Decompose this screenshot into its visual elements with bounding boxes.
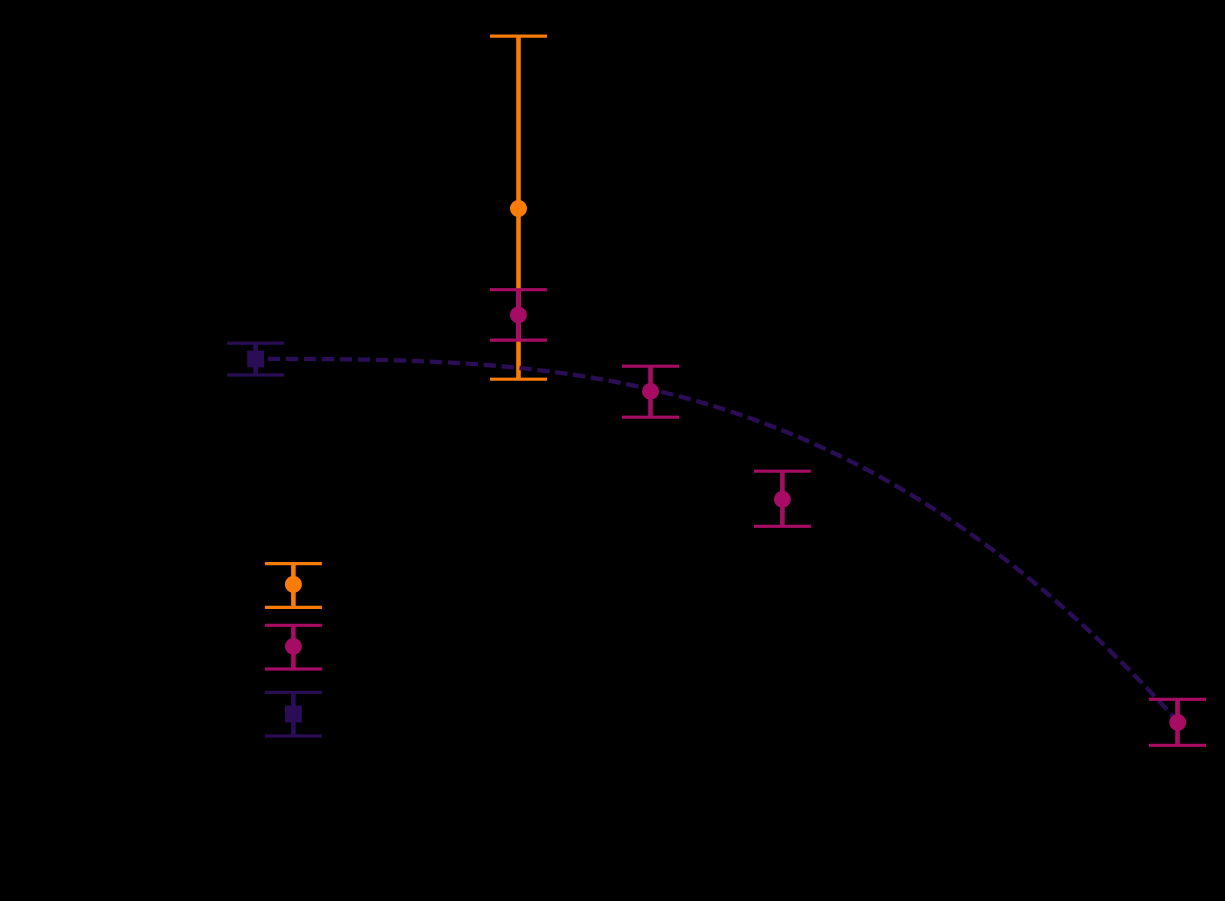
orange cap top (293,563.6)	[265, 562, 322, 565]
crimson marker (518.4,314.9)	[510, 307, 527, 324]
indigo errorbar series	[227, 343, 322, 736]
crimson cap (518,340.1)	[490, 339, 547, 342]
crimson errorbar vline at (518,315)	[516, 290, 521, 340]
indigo errorbar vline at (255.6,359)	[253, 343, 258, 375]
indigo square marker (293.4,714)	[285, 706, 302, 723]
indigo cap (293.4,736.0)	[265, 734, 322, 737]
indigo square marker (255.6,359)	[247, 351, 264, 368]
orange errorbar vline at x=293	[291, 564, 296, 608]
dashed indigo fit curve	[250, 359, 1178, 722]
orange errorbar bottom cap y=379	[490, 378, 547, 381]
crimson errorbar series	[265, 290, 1206, 746]
indigo cap (255.6,375.0)	[227, 373, 284, 376]
crimson errorbar vline at (650.5,391)	[648, 366, 653, 417]
orange errorbar vline at x=518	[516, 36, 521, 379]
orange marker point (293.4,584.4)	[285, 576, 302, 593]
crimson marker (650.5,391.3)	[642, 383, 659, 400]
crimson cap (650.5,417.2)	[622, 416, 679, 419]
orange errorbar top cap y=36	[490, 34, 547, 37]
crimson errorbar vline at (1177.5,722)	[1175, 699, 1180, 745]
crimson cap (518,289.7)	[490, 288, 547, 291]
crimson cap (293.4,669.0)	[265, 667, 322, 670]
crimson marker (1177.7,722.4)	[1169, 714, 1186, 731]
orange cap bottom (293,607.4)	[265, 606, 322, 609]
crimson cap (1177.5,745.3)	[1149, 744, 1206, 747]
crimson cap (782.4,471.2)	[754, 470, 811, 473]
indigo cap (255.6,343.2)	[227, 342, 284, 345]
crimson errorbar vline at (293.4,647)	[291, 625, 296, 669]
crimson marker (293.4,646.4)	[285, 638, 302, 655]
orange errorbar series	[265, 36, 547, 607]
crimson cap (293.4,625.3)	[265, 624, 322, 627]
crimson marker (782.4,499.3)	[774, 491, 791, 508]
indigo cap (293.4,692.3)	[265, 691, 322, 694]
crimson cap (782.4,526.3)	[754, 525, 811, 528]
orange marker point (518.5,208.5)	[510, 200, 527, 217]
indigo errorbar vline at (293.4,714)	[291, 692, 296, 736]
crimson cap (650.5,366.2)	[622, 365, 679, 368]
crimson cap (1177.5,699.3)	[1149, 698, 1206, 701]
crimson errorbar vline at (782.4,499)	[780, 471, 785, 526]
